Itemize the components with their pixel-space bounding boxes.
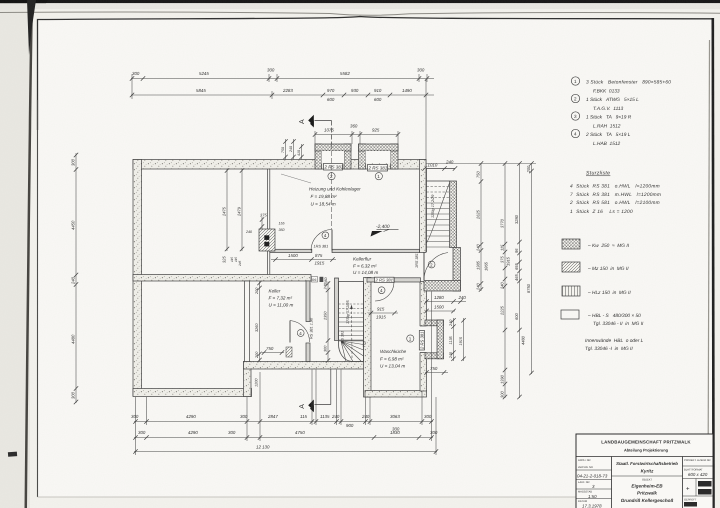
wall: exterior top xyxy=(133,160,426,170)
svg-text:OBJEKT: OBJEKT xyxy=(642,479,653,482)
exterior stair treads xyxy=(427,183,450,247)
two vertical dims in top-left room xyxy=(226,169,228,251)
wall: Waschkueche top (ladder) with door gap 375-394 xyxy=(367,278,375,282)
chimney block xyxy=(259,229,275,251)
right column xyxy=(683,465,714,467)
walk line xyxy=(351,308,354,358)
three mini vertical dims left of window well 1 xyxy=(285,139,287,160)
legend item 4 xyxy=(571,129,579,137)
frame border xyxy=(38,17,713,131)
svg-text:GEPRÜFT: GEPRÜFT xyxy=(684,498,697,502)
svg-text:Abteilung Projektierung: Abteilung Projektierung xyxy=(624,448,669,453)
svg-text:PROJEKT. LIZENZ NR: PROJEKT. LIZENZ NR xyxy=(684,459,711,462)
top paper edge wavy line xyxy=(0,3,720,9)
wall: exterior left xyxy=(133,160,142,397)
position circles below top windows xyxy=(328,173,335,180)
wall: Keller right (ladder, door gap 321.5-343) xyxy=(306,281,310,322)
legend item 2 xyxy=(571,94,579,102)
svg-text:ARCH. NR: ARCH. NR xyxy=(578,459,591,462)
row C total xyxy=(134,451,437,453)
svg-text:17.3.1978: 17.3.1978 xyxy=(582,504,602,508)
wall: exterior bottom-left xyxy=(133,389,252,397)
window well 2 (top) xyxy=(359,144,399,171)
svg-text:ZEICHN. NR: ZEICHN. NR xyxy=(578,466,593,469)
row B xyxy=(134,437,433,439)
left page edge dark line xyxy=(25,4,34,508)
wall: Waschkueche bottom xyxy=(365,391,427,398)
door Heizung (leaf+arc) xyxy=(331,230,333,251)
small diagonal in Heizung top-left corner xyxy=(281,174,311,183)
svg-text:Pritzwalk: Pritzwalk xyxy=(637,491,657,496)
bottom-left small mark xyxy=(8,452,17,457)
right page edge shadow xyxy=(708,40,710,497)
L3 xyxy=(519,164,521,399)
extension verticals for top rows xyxy=(131,74,133,99)
legend item 3 xyxy=(571,112,579,120)
svg-text:1:50: 1:50 xyxy=(588,494,597,499)
hatch legend box 4 (empty) xyxy=(561,310,579,319)
Kellerflur dims xyxy=(271,259,336,261)
wall: Heizung bottom (ladder hatch, door gap 311.8-332) xyxy=(270,249,312,252)
middle column xyxy=(616,461,678,503)
Keller 750 dim xyxy=(262,352,284,354)
wall: Keller left (double line) xyxy=(245,281,250,362)
svg-text:Staatl. Forstwirtschaftsbetrie: Staatl. Forstwirtschaftsbetrieb xyxy=(616,461,678,466)
L2 xyxy=(504,164,506,399)
left column rows xyxy=(576,469,612,471)
window well 1 (top) xyxy=(315,144,351,170)
dims right of top-right corner: 1010 / 240 xyxy=(428,160,454,168)
wall: Heizung right exterior xyxy=(420,160,427,253)
wall: Waschkueche left / stair right xyxy=(364,278,372,398)
svg-text:Kyritz: Kyritz xyxy=(641,469,654,474)
window well 3 dims xyxy=(453,318,455,361)
window well 3 (Waschkueche right) xyxy=(419,320,443,359)
top black strip xyxy=(0,0,720,3)
svg-text:+: + xyxy=(686,487,690,493)
svg-text:LAUF. NR: LAUF. NR xyxy=(578,481,590,484)
door Keller xyxy=(289,321,291,343)
room labels xyxy=(269,187,407,369)
small hatched pier near Keller door bottom xyxy=(286,347,292,357)
svg-text:600 x 420: 600 x 420 xyxy=(688,472,708,477)
wall: below Keller and stairwell xyxy=(244,362,369,370)
winder steps fan xyxy=(341,341,364,362)
svg-text:04-21-2-018-73: 04-21-2-018-73 xyxy=(577,474,608,479)
Keller interior vertical dim xyxy=(259,282,261,362)
legend item 1 xyxy=(571,77,579,85)
hatch legend box 1 (cross) xyxy=(562,239,580,249)
hatch legend box 2 (diag) xyxy=(562,262,580,272)
wall: stairwell left (ladder) xyxy=(335,278,339,341)
svg-text:Eigenheim-EB: Eigenheim-EB xyxy=(631,484,663,489)
L1 xyxy=(480,164,482,292)
wall: Waschkueche right (with window gap) xyxy=(420,282,427,327)
vestibule dims 1280/240/1500 xyxy=(425,301,466,303)
wall: vertical connector right of lower-left room xyxy=(244,362,252,397)
1200 opening dim at lower step xyxy=(255,378,259,387)
circle at Waschkueche window xyxy=(407,335,414,342)
Waschkueche interior dims xyxy=(368,312,398,314)
corridor strip dim x=328 xyxy=(327,282,329,362)
wall: middle horizontal (between left rooms / Kellerflur) xyxy=(133,275,311,282)
door Waschkueche xyxy=(375,281,394,283)
wall: top-left room right / Heizung left (double line) xyxy=(266,169,268,275)
stair top small labels xyxy=(324,278,345,344)
title block outer frame xyxy=(576,434,713,508)
interior stairwell xyxy=(339,282,364,362)
svg-text:LANDBAUGEMEINSCHAFT PRITZWALK: LANDBAUGEMEINSCHAFT PRITZWALK xyxy=(601,440,691,445)
svg-text:Grundriß Kellergeschoß: Grundriß Kellergeschoß xyxy=(621,498,674,503)
L4 xyxy=(531,164,533,375)
exterior stair retaining wall (cross hatch) xyxy=(450,181,457,248)
hatch legend box 3 (vertical) xyxy=(562,286,580,296)
door vestibule (exterior) xyxy=(423,252,425,280)
extension verticals down from building xyxy=(135,397,137,455)
section line A-A (dashed) xyxy=(315,121,332,405)
header texts xyxy=(601,440,691,453)
row A xyxy=(134,421,433,423)
